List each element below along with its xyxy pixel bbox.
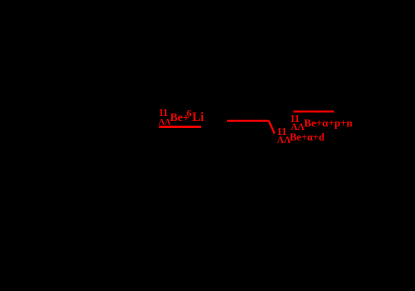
svg-text:ΛΛ: ΛΛ	[291, 122, 305, 133]
leader line from L2 down to its label	[269, 121, 275, 134]
level line L2: 11-LL-Be+alpha+d threshold	[227, 120, 269, 122]
label: 11/LL Be+alpha+d	[277, 127, 325, 146]
svg-text:Be+α+d: Be+α+d	[290, 133, 325, 144]
label: 11/LL Be+alpha+p+n	[290, 114, 353, 133]
level line L1: 11-LL-Be+6Li threshold	[159, 126, 201, 128]
label: 11/LL Be+6Li	[159, 108, 205, 127]
svg-text:ΛΛ: ΛΛ	[159, 117, 171, 126]
svg-text:Be+α+p+n: Be+α+p+n	[304, 117, 353, 129]
level line L3: 11-LL-Be+alpha+p+n threshold	[294, 111, 335, 113]
svg-text:ΛΛ: ΛΛ	[277, 135, 291, 146]
svg-text:Li: Li	[192, 110, 204, 124]
svg-text:6: 6	[187, 109, 192, 119]
